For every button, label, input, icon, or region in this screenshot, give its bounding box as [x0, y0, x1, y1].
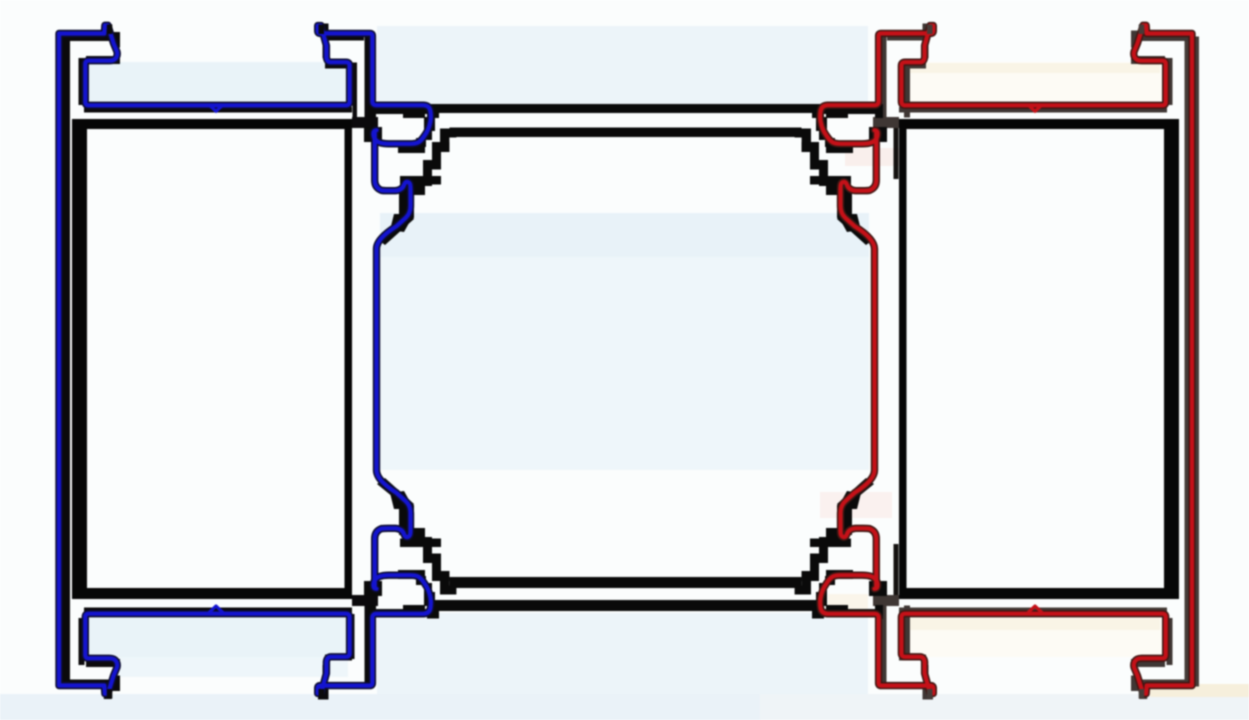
- tint: bottom-center cavity: [377, 613, 868, 700]
- tint: left top screw channel: [86, 62, 352, 105]
- tint: top-center cavity: [377, 26, 868, 104]
- tint: right bottom channel (cream): [900, 617, 1162, 657]
- black tab tips re-assert over blue: [107, 25, 113, 35]
- central chamber inner top wall line: [450, 128, 802, 138]
- central chamber outer top wall line: [429, 104, 823, 113]
- central chamber outer bottom wall line: [429, 600, 823, 611]
- central chamber inner bottom wall line: [450, 577, 802, 588]
- tint: right top channel (cream): [900, 62, 1162, 104]
- LEFT PROFILE (blue trace over black raster): [59, 24, 456, 700]
- dark tab tips re-assert over red: [1139, 25, 1145, 35]
- tint: central chamber interior: [380, 213, 869, 470]
- tint: left bottom channel: [88, 616, 352, 657]
- RIGHT PROFILE (red trace over dark raster, mirrored): [795, 24, 1199, 700]
- tint: bottom strip: [0, 694, 760, 720]
